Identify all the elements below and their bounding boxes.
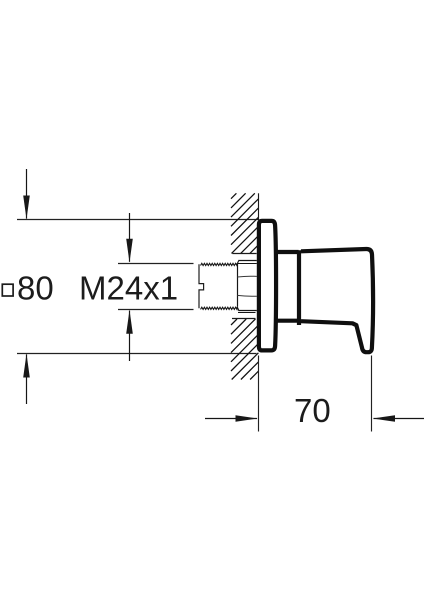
- dimension extension line: square-80 bottom (escutcheon bottom reference): [17, 353, 257, 355]
- dimension extension line: 70 right (handle front): [371, 356, 373, 432]
- dimension arrow: square-80 bottom, pointing up: [23, 354, 30, 404]
- hex nut facet line upper: [237, 275, 256, 278]
- dimension arrow: M24 bottom, pointing up: [126, 310, 133, 361]
- dimension extension line: 70 left (wall surface): [258, 356, 260, 432]
- hex nut top chamfer: [237, 261, 239, 264]
- hex nut bottom chamfer: [237, 307, 239, 311]
- thread crest bottom (zigzag): [201, 307, 238, 309]
- svg-text:70: 70: [294, 392, 331, 429]
- dimension arrow: 70 right, pointing left: [373, 415, 424, 422]
- hex nut left face: [237, 264, 239, 307]
- dimension arrow: square-80 top, pointing down: [23, 169, 30, 219]
- hex nut inner top line: [237, 263, 256, 265]
- wall hatch upper section: [231, 193, 258, 253]
- wall hole lower boundary line: [232, 318, 256, 320]
- wall hatch lower section: [231, 319, 258, 380]
- label: square symbol of square-80: [2, 284, 13, 296]
- dimension arrow: 70 left, pointing right: [205, 415, 258, 422]
- wall surface line above escutcheon: [258, 193, 260, 220]
- wall hole upper boundary line: [232, 253, 256, 255]
- svg-text:80: 80: [17, 270, 54, 307]
- valve body top edge: [277, 250, 299, 254]
- svg-text:M24x1: M24x1: [79, 270, 178, 307]
- thread crest top (zigzag): [201, 263, 238, 265]
- hex nut bottom edge: [238, 310, 256, 312]
- escutcheon plate (wall flange): [259, 221, 276, 351]
- dimension line: M24 thread bottom edge: [118, 309, 194, 311]
- dimension extension line: square-80 top (escutcheon top reference): [17, 219, 259, 221]
- hex nut inner bottom line: [238, 312, 256, 314]
- hex nut facet line lower: [237, 294, 256, 297]
- spindle end face with screwdriver slot notch: [199, 264, 204, 308]
- handle with lever tip: [301, 249, 373, 352]
- valve body bottom edge: [277, 319, 299, 323]
- hex nut top edge: [238, 260, 256, 262]
- handle/body joint line: [297, 250, 301, 325]
- dimension line: M24 thread top edge: [118, 263, 194, 265]
- dimension arrow: M24 top, pointing down: [126, 213, 133, 263]
